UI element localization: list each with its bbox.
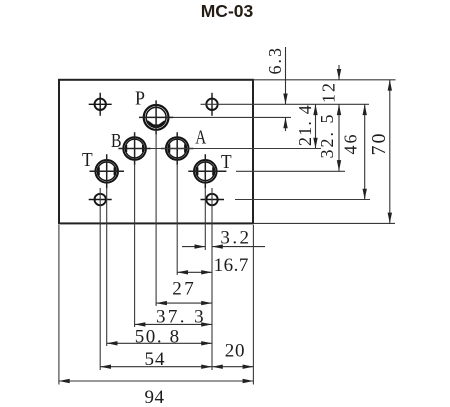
svg-text:12: 12 [319, 81, 339, 103]
svg-text:P: P [135, 88, 145, 110]
bolt hole bottom-left [89, 194, 112, 205]
dimension 3.2 line [182, 246, 265, 248]
bolt hole bottom centerline extension right [235, 199, 370, 201]
bolt hole bottom-right [201, 194, 225, 205]
port B vertical centerline [134, 165, 136, 328]
svg-text:70: 70 [368, 132, 390, 156]
dimension 12 line (outside arrows) [338, 65, 340, 171]
extension line plate left edge down [58, 225, 60, 385]
svg-text:46: 46 [341, 133, 361, 155]
ports A B shared horizontal centerline [150, 148, 321, 150]
port T left [95, 160, 118, 183]
dimension 94 line [59, 380, 254, 382]
dimension 32.5 lower arrow [337, 160, 341, 171]
svg-text:B: B [111, 130, 122, 152]
port A [166, 137, 189, 160]
bolt hole bottom-right centerline down to 54 dim [211, 188, 213, 370]
dimension 50.8 line [107, 342, 212, 344]
dimension 70 line [389, 80, 391, 224]
port P crosshair [139, 100, 173, 134]
svg-text:50. 8: 50. 8 [135, 326, 181, 347]
dimension 21.4 line [315, 104, 317, 148]
extension line plate right edge down [252, 225, 254, 385]
dimension 27 line [156, 302, 212, 304]
port A vertical centerline [176, 165, 178, 276]
svg-text:37. 3: 37. 3 [156, 306, 206, 327]
port A crosshair [161, 132, 193, 164]
dimension 20 line [212, 366, 253, 368]
svg-text:21. 4: 21. 4 [295, 104, 315, 146]
port T left crosshair [90, 154, 125, 188]
svg-text:54: 54 [145, 349, 166, 370]
bolt hole top-right [206, 93, 217, 116]
svg-text:T: T [82, 149, 93, 171]
bolt hole top-right centerline extended right [201, 103, 370, 105]
port T right [194, 160, 217, 183]
svg-text:6.3: 6.3 [265, 46, 285, 75]
svg-text:T: T [221, 151, 232, 173]
dimension 54 line [100, 366, 212, 368]
port P [144, 105, 169, 130]
svg-text:94: 94 [145, 387, 165, 407]
svg-text:32. 5: 32. 5 [317, 113, 337, 159]
extension line plate bottom edge right [253, 222, 395, 224]
dimension 6.3 line [285, 47, 287, 131]
dimension 46 line [364, 104, 366, 199]
svg-text:20: 20 [225, 341, 246, 362]
svg-text:16.7: 16.7 [214, 255, 249, 276]
port B [123, 137, 146, 160]
dimension 37.3 line [135, 323, 212, 325]
svg-text:MC-03: MC-03 [201, 1, 254, 21]
svg-text:3.2: 3.2 [220, 228, 251, 249]
svg-text:A: A [195, 127, 206, 149]
bolt hole bottom-left centerline down to 54 dim [99, 188, 101, 370]
extension line plate top edge right [253, 79, 396, 81]
bolt hole top-left [89, 93, 112, 116]
plate outline [59, 80, 253, 224]
dimension 16.7 line [177, 271, 212, 273]
port T right crosshair [188, 154, 226, 188]
port T right centerline extension right [236, 170, 345, 172]
svg-text:27: 27 [172, 279, 196, 300]
port B crosshair [118, 132, 150, 164]
